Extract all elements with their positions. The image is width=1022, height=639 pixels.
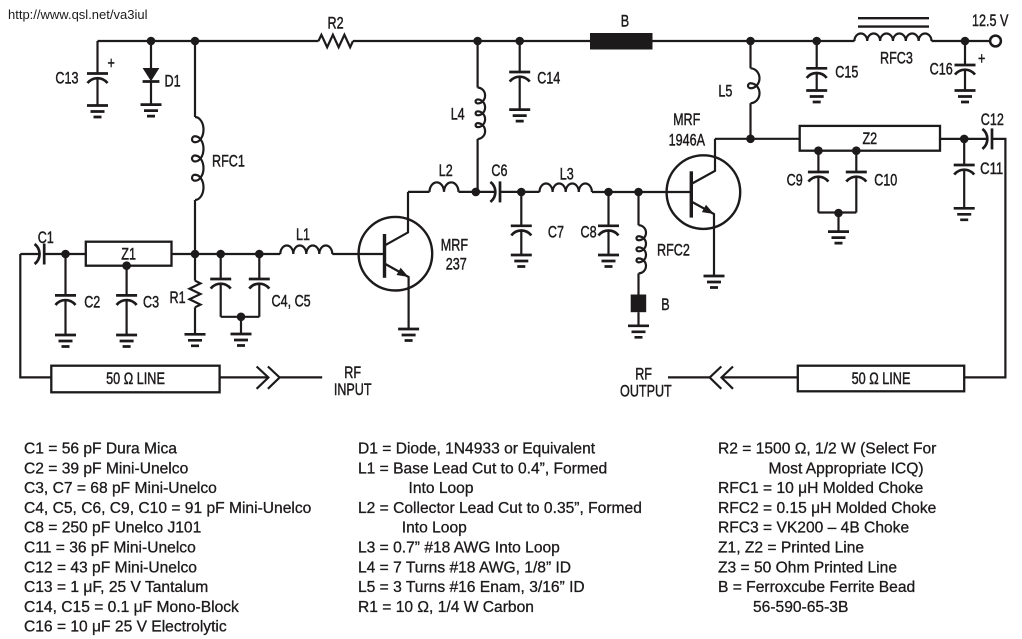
svg-text:Z1, Z2 = Printed Line: Z1, Z2 = Printed Line: [718, 540, 864, 557]
svg-text:RFC2: RFC2: [657, 240, 690, 259]
svg-text:R1 = 10 Ω, 1/4 W Carbon: R1 = 10 Ω, 1/4 W Carbon: [358, 599, 534, 616]
svg-text:C1: C1: [38, 228, 54, 247]
capacitor C13: [96, 41, 98, 74]
wire top supply rail: [98, 40, 991, 42]
wire C12 to output feedline: [964, 139, 1005, 378]
node junction C4 C5 ground: [237, 313, 246, 322]
svg-text:C2 = 39 pF Mini-Unelco: C2 = 39 pF Mini-Unelco: [24, 460, 189, 477]
node junction RFC2: [634, 188, 643, 197]
node junction L5 top: [746, 37, 755, 46]
svg-text:Into Loop: Into Loop: [402, 520, 467, 537]
wire C1 down to input feedline: [20, 254, 51, 377]
svg-text:B: B: [621, 11, 629, 30]
svg-text:C16 = 10 μF 25 V Electrolytic: C16 = 10 μF 25 V Electrolytic: [24, 619, 227, 636]
capacitor C9: [814, 146, 823, 155]
svg-text:Z2: Z2: [862, 129, 877, 148]
terminal 12.5 V: [990, 36, 1001, 47]
inductor RFC3: [854, 34, 931, 41]
printed line Z3 50 ohm input: [51, 366, 219, 393]
capacitor C4: [220, 254, 222, 279]
capacitor C5: [258, 254, 260, 279]
wire C6 to L3: [500, 191, 540, 193]
svg-text:L4 = 7 Turns #18 AWG, 1/8” ID: L4 = 7 Turns #18 AWG, 1/8” ID: [358, 559, 571, 576]
wire Z2 to C12: [940, 138, 987, 140]
wire L2 to C6: [459, 191, 496, 193]
svg-text:L5: L5: [718, 82, 732, 101]
svg-text:C9: C9: [787, 171, 803, 190]
svg-text:C4, C5, C6, C9, C10 = 91 pF Mi: C4, C5, C6, C9, C10 = 91 pF Mini-Unelco: [24, 500, 312, 517]
capacitor C12: [991, 128, 994, 149]
inductor L1: [280, 246, 332, 255]
node junction C5: [255, 250, 264, 259]
svg-text:http://www.qsl.net/va3iul: http://www.qsl.net/va3iul: [8, 7, 148, 22]
node junction C16 top: [961, 37, 970, 46]
svg-text:D1 = Diode, 1N4933 or Equivale: D1 = Diode, 1N4933 or Equivalent: [358, 441, 596, 458]
wire L1 to Q1 base: [332, 253, 384, 255]
printed line Z2: [800, 126, 940, 151]
svg-text:L3 = 0.7” #18 AWG Into Loop: L3 = 0.7” #18 AWG Into Loop: [358, 540, 560, 557]
inductor L2: [430, 182, 459, 192]
ferrite bead B: [590, 33, 653, 50]
svg-text:C8: C8: [581, 223, 597, 242]
svg-text:L5 = 3 Turns #16 Enam, 3/16” I: L5 = 3 Turns #16 Enam, 3/16” ID: [358, 579, 585, 596]
diode D1: [150, 41, 152, 68]
svg-text:L2 = Collector Lead Cut to 0.3: L2 = Collector Lead Cut to 0.35”, Formed: [358, 500, 642, 517]
svg-text:C13 = 1 μF, 25 V Tantalum: C13 = 1 μF, 25 V Tantalum: [24, 579, 208, 596]
node junction C9 C10 ground: [834, 209, 843, 218]
svg-text:C15: C15: [835, 63, 858, 82]
inductor L4: [477, 41, 479, 88]
svg-text:RFC1 = 10 μH Molded Choke: RFC1 = 10 μH Molded Choke: [718, 480, 923, 497]
svg-text:56-590-65-3B: 56-590-65-3B: [753, 599, 848, 616]
node junction L4 top: [473, 37, 482, 46]
transistor Q1 MRF 237: [359, 217, 433, 291]
wire C1 to Z1: [44, 253, 86, 255]
node junction C14 top: [515, 37, 524, 46]
svg-text:MRF: MRF: [441, 235, 468, 254]
svg-text:L1 = Base Lead Cut to 0.4”, Fo: L1 = Base Lead Cut to 0.4”, Formed: [358, 460, 607, 477]
svg-text:OUTPUT: OUTPUT: [620, 381, 672, 400]
svg-text:C3, C7 = 68 pF Mini-Unelco: C3, C7 = 68 pF Mini-Unelco: [24, 480, 217, 497]
node junction C8: [604, 188, 613, 197]
ground C9 C10: [837, 213, 839, 232]
svg-text:RFC3: RFC3: [880, 48, 913, 67]
capacitor C3: [122, 261, 131, 270]
svg-text:R2: R2: [328, 14, 344, 33]
svg-text:50 Ω LINE: 50 Ω LINE: [852, 369, 911, 388]
svg-text:C16: C16: [930, 60, 953, 79]
svg-text:L1: L1: [296, 225, 310, 244]
parts list column 1: [24, 441, 312, 636]
ground RFC2 bead: [637, 312, 639, 326]
svg-text:D1: D1: [165, 71, 181, 90]
capacitor C16: [964, 41, 966, 65]
capacitor C15: [816, 41, 818, 68]
inductor L3: [540, 184, 592, 193]
inductor RFC2: [637, 192, 639, 225]
resistor R1: [194, 254, 196, 281]
wire input feedline to chevrons: [220, 376, 269, 378]
svg-text:C4, C5: C4, C5: [272, 291, 311, 310]
svg-text:C2: C2: [84, 293, 100, 312]
svg-text:B = Ferroxcube Ferrite Bead: B = Ferroxcube Ferrite Bead: [718, 579, 915, 596]
svg-text:+: +: [108, 54, 115, 73]
svg-text:R1: R1: [170, 288, 186, 307]
svg-text:RFC1: RFC1: [212, 152, 245, 171]
svg-text:C14: C14: [537, 69, 560, 88]
chevron input: [257, 367, 269, 389]
node junction RFC1/R1: [191, 250, 200, 259]
transistor Q2 MRF 1946A: [667, 155, 741, 229]
ferrite bead B bottom: [631, 295, 647, 313]
svg-text:C12 = 43 pF Mini-Unelco: C12 = 43 pF Mini-Unelco: [24, 559, 197, 576]
capacitor C10: [852, 146, 861, 155]
node junction C2: [61, 250, 70, 259]
wire RF OUTPUT to chevrons: [668, 376, 710, 378]
wire C9 C10 join: [818, 211, 856, 213]
node junction C11: [960, 135, 969, 144]
svg-text:C10: C10: [874, 171, 897, 190]
capacitor C2: [64, 254, 66, 295]
svg-text:Into Loop: Into Loop: [409, 480, 474, 497]
svg-text:R2 = 1500 Ω, 1/2 W (Select Fo: R2 = 1500 Ω, 1/2 W (Select For: [718, 441, 936, 458]
svg-text:C13: C13: [55, 69, 78, 88]
svg-text:C3: C3: [143, 293, 159, 312]
parts list column 2: [358, 441, 642, 616]
svg-text:Z1: Z1: [121, 245, 136, 264]
capacitor C7: [520, 192, 522, 226]
svg-text:C12: C12: [981, 110, 1004, 129]
svg-text:Most Appropriate ICQ): Most Appropriate ICQ): [769, 460, 924, 477]
svg-text:C6: C6: [491, 161, 507, 180]
ground Q1 emitter: [398, 329, 419, 341]
svg-text:C8 = 250 pF Unelco J101: C8 = 250 pF Unelco J101: [24, 520, 201, 537]
printed line 50 ohm output: [798, 366, 964, 392]
svg-text:Z3 = 50 Ohm Printed Line: Z3 = 50 Ohm Printed Line: [718, 559, 897, 576]
capacitor C6: [499, 181, 502, 202]
svg-text:L4: L4: [451, 105, 465, 124]
wire chevrons to output feedline: [722, 376, 798, 378]
node junction L4 bottom: [472, 188, 481, 197]
svg-text:1946A: 1946A: [669, 130, 706, 149]
node junction D1 top: [147, 37, 156, 46]
printed line Z1: [86, 242, 172, 266]
svg-text:L3: L3: [560, 165, 574, 184]
svg-text:RFC2 = 0.15 μH Molded Choke: RFC2 = 0.15 μH Molded Choke: [718, 500, 936, 517]
svg-text:12.5 V: 12.5 V: [972, 11, 1009, 30]
svg-text:C11: C11: [980, 159, 1003, 178]
capacitor C8: [607, 192, 609, 226]
resistor R2: [319, 35, 354, 47]
capacitor C11: [963, 139, 965, 165]
inductor L5: [749, 41, 751, 68]
wire Q1 collector to L2: [408, 191, 430, 193]
node junction C15 top: [812, 37, 821, 46]
svg-text:INPUT: INPUT: [334, 380, 372, 399]
node junction C4: [216, 250, 225, 259]
inductor RFC1: [194, 41, 196, 117]
node junction C7: [517, 188, 526, 197]
svg-text:50 Ω LINE: 50 Ω LINE: [106, 369, 165, 388]
wire chevrons to RF INPUT: [280, 376, 323, 378]
parts list column 3: [718, 441, 936, 616]
svg-text:B: B: [661, 295, 669, 314]
svg-text:C11 = 36 pF Mini-Unelco: C11 = 36 pF Mini-Unelco: [24, 540, 196, 557]
svg-text:MRF: MRF: [673, 110, 700, 129]
wire Z1 to base line: [172, 253, 281, 255]
ground Q2 emitter: [704, 276, 725, 288]
ground C4 C5: [240, 317, 242, 334]
capacitor C1: [20, 253, 39, 255]
wire C4 C5 join: [221, 316, 260, 318]
svg-text:L2: L2: [439, 161, 453, 180]
capacitor C14: [519, 41, 521, 72]
svg-text:RFC3 = VK200 – 4B Choke: RFC3 = VK200 – 4B Choke: [718, 520, 909, 537]
svg-text:237: 237: [446, 254, 467, 273]
wire Q2 collector to Z2: [715, 138, 800, 140]
node junction L5 bottom: [746, 135, 755, 144]
wire L3 to Q2 base: [592, 191, 691, 193]
svg-text:C1 = 56 pF Dura Mica: C1 = 56 pF Dura Mica: [24, 441, 177, 458]
svg-text:C14, C15 = 0.1 μF Mono-Block: C14, C15 = 0.1 μF Mono-Block: [24, 599, 239, 616]
chevron output: [710, 367, 722, 389]
svg-text:+: +: [978, 49, 985, 68]
svg-text:C7: C7: [548, 223, 564, 242]
node junction RFC1 top: [191, 37, 200, 46]
